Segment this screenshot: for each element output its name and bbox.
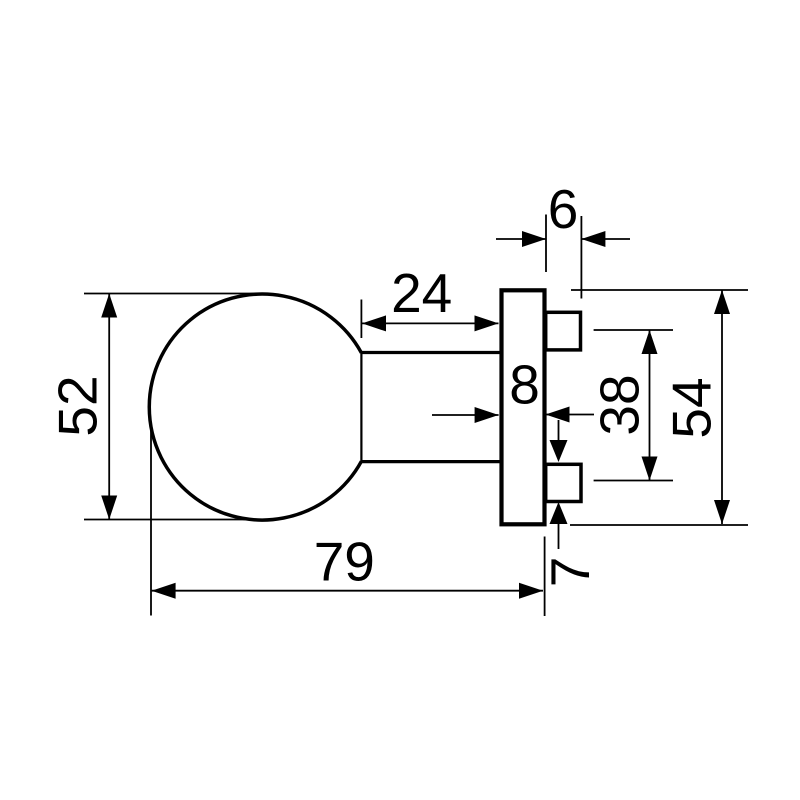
svg-text:6: 6 bbox=[548, 178, 579, 240]
svg-text:24: 24 bbox=[391, 262, 452, 324]
svg-text:8: 8 bbox=[509, 354, 540, 416]
svg-text:79: 79 bbox=[314, 530, 375, 592]
svg-text:7: 7 bbox=[539, 557, 601, 588]
svg-text:54: 54 bbox=[661, 377, 723, 438]
svg-text:52: 52 bbox=[47, 375, 109, 436]
svg-text:38: 38 bbox=[589, 374, 651, 435]
